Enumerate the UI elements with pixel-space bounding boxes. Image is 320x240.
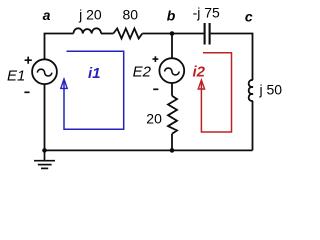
wire E2 to resistor 20 [171,83,173,96]
wire capacitor to corner c [211,34,253,81]
resistor 80 [113,29,142,39]
inductor j50 [249,80,253,101]
junction dot bottom-middle [170,148,175,153]
svg-text:j 20: j 20 [78,7,102,23]
wire right side bottom [252,101,254,150]
ground [34,150,55,168]
voltage source E2 [159,58,184,83]
E1 plus [25,57,32,64]
i1 arrowhead [61,79,67,88]
bottom wire [45,149,253,151]
svg-text:80: 80 [123,7,139,23]
E2 plus [153,56,159,62]
svg-text:b: b [167,7,176,23]
i2 arrowhead [198,80,204,89]
svg-text:E1: E1 [7,68,25,85]
wire resistor to node b [142,33,172,35]
svg-text:a: a [43,7,51,23]
inductor j20 [74,28,102,33]
junction dot bottom-left [42,148,47,153]
E1 sine [37,69,51,76]
svg-text:j 50: j 50 [259,82,283,98]
mesh current loop i2 [201,53,231,132]
wire E1 to bottom-left junction [44,84,46,150]
junction dot node b [170,31,175,36]
resistor 20 [168,96,177,134]
capacitor -j75 plate right [209,23,211,45]
wire resistor 20 to bottom [171,134,173,151]
mesh current loop i1 [64,51,124,129]
svg-text:i1: i1 [88,65,101,82]
wire node b to E2 [171,34,173,59]
svg-text:c: c [245,9,253,25]
svg-text:E2: E2 [133,64,152,81]
E2 minus [153,88,158,90]
capacitor -j75 plate left [204,23,206,45]
E1 minus [24,91,29,93]
svg-text:i2: i2 [193,64,206,81]
voltage source E1 [32,59,57,84]
wire inductor to resistor [101,33,113,35]
wire node b to capacitor [172,33,204,35]
wire top-left corner [45,34,74,60]
svg-text:-j 75: -j 75 [193,4,220,20]
E2 sine [165,68,179,75]
svg-text:20: 20 [146,110,162,126]
